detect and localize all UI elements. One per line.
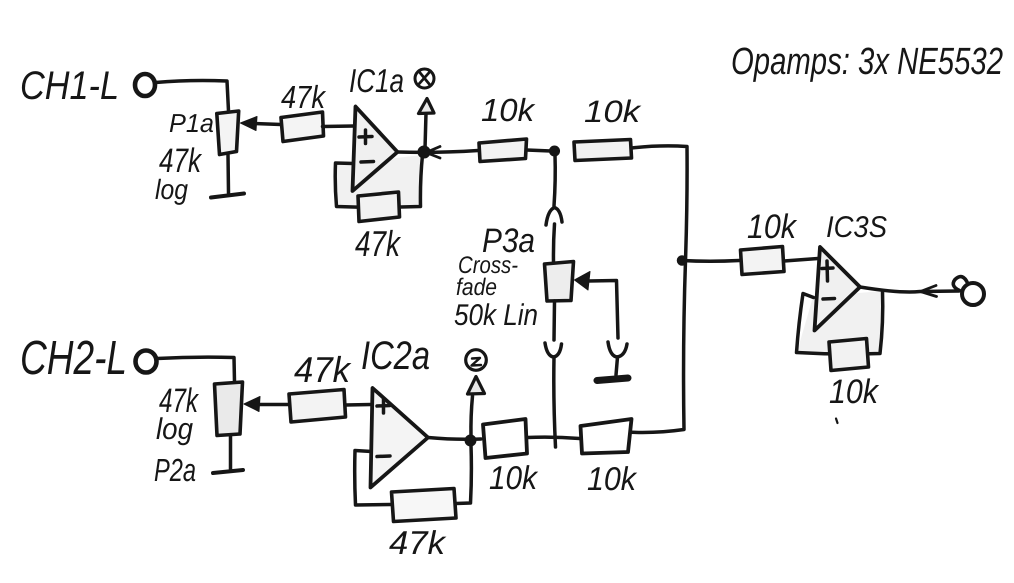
terminal CH1-L input (135, 74, 155, 96)
potentiometer P3a wiper arrow (575, 272, 591, 291)
resistor 10k IC3 feedback (829, 339, 869, 371)
svg-text:47k: 47k (355, 223, 402, 264)
svg-text:CH2-L: CH2-L (20, 332, 127, 385)
svg-text:10k: 10k (489, 459, 538, 496)
wire bus junction to 10k IC3 (682, 259, 739, 263)
wire 10k to IC3 (784, 259, 818, 262)
wire IC1a output (398, 151, 479, 153)
op-amp IC1a minus (361, 160, 374, 164)
resistor 10k bottom-right (581, 419, 632, 454)
wire IC2a output (428, 438, 481, 440)
resistor 47k CH2 input (289, 390, 346, 423)
svg-text:IC3S: IC3S (826, 211, 887, 244)
wire IC3 feedback loop (797, 291, 883, 354)
potentiometer P2a body (215, 382, 243, 436)
svg-text:P1a: P1a (169, 108, 214, 138)
op-amp IC3 minus (823, 297, 835, 301)
wire 47k to IC1a (323, 124, 355, 128)
resistor 10k top-left (479, 139, 527, 162)
wire P3a wiper (588, 281, 618, 339)
op-amp IC1a feedback shading (335, 155, 422, 207)
wire IC1a feedback loop (335, 155, 422, 207)
wire CH2 input to P2a (157, 357, 235, 382)
wire wiper to ground (616, 357, 618, 375)
svg-text:10k: 10k (587, 460, 637, 497)
arrowhead test point X (419, 99, 435, 114)
stray pen tick (836, 419, 838, 424)
op-amp IC1a plus (359, 130, 372, 144)
svg-text:IC1a: IC1a (349, 62, 404, 99)
svg-text:47k: 47k (294, 349, 352, 390)
arrowhead test point 2 (468, 377, 485, 395)
wire P2a bottom (229, 436, 233, 470)
svg-text:10k: 10k (584, 94, 642, 129)
resistor 47k IC2a feedback (392, 489, 457, 522)
svg-text:47k: 47k (389, 524, 447, 561)
op-amp IC1a (353, 107, 398, 192)
svg-text:10k: 10k (829, 373, 880, 411)
svg-text:47k: 47k (281, 79, 327, 115)
connector hook P3a wiper (608, 342, 627, 357)
test point 2 circle (466, 350, 487, 371)
node right bus junction (678, 256, 687, 265)
connector hook P3a bottom (545, 343, 562, 357)
svg-text:fade: fade (456, 274, 497, 301)
potentiometer P2a wiper arrow (258, 403, 288, 407)
op-amp IC3 plus (822, 261, 833, 281)
arrowhead on output wire (921, 286, 937, 297)
terminal P1a bottom tick (211, 194, 244, 198)
wire arrow to P3a (553, 224, 554, 262)
wire to test point 2 (471, 396, 473, 437)
wire between bottom 10ks (527, 437, 580, 438)
ground P3a wiper (597, 378, 628, 381)
node top junction (550, 146, 560, 156)
resistor 10k top-right (574, 140, 632, 161)
op-amp IC3 (815, 247, 861, 331)
wire P3a bottom (552, 301, 556, 340)
op-amp IC3 feedback shading (797, 291, 882, 353)
wire 10k to junction (527, 150, 552, 151)
arrowhead at IC1a output node (426, 147, 440, 159)
svg-text:10k: 10k (747, 208, 798, 246)
wire top junction down to P3a (554, 155, 555, 206)
svg-text:Opamps: 3x NE5532: Opamps: 3x NE5532 (731, 41, 1003, 83)
node IC2a output (465, 435, 475, 445)
svg-text:CH1-L: CH1-L (20, 64, 119, 108)
wire IC2a feedback loop (355, 445, 472, 505)
resistor 47k IC1a feedback (358, 192, 400, 222)
svg-text:10k: 10k (481, 92, 536, 128)
potentiometer P3a body (545, 262, 574, 302)
terminal P2a bottom tick (213, 470, 243, 473)
test point X circle (415, 69, 434, 88)
svg-text:50k Lin: 50k Lin (454, 299, 538, 332)
wire IC3 output (860, 287, 959, 292)
wire P1a bottom (226, 155, 230, 193)
connector arrow up P3a top (546, 208, 562, 226)
svg-text:IC2a: IC2a (361, 334, 430, 378)
wire right bus (627, 146, 688, 433)
wire P3a bottom to bus (554, 357, 556, 447)
terminal CH2-L input (136, 351, 157, 373)
op-amp IC2a minus (377, 454, 390, 458)
wire CH1 input to P1a (156, 81, 229, 112)
resistor 10k IC3 input (741, 247, 785, 275)
potentiometer P1a body (217, 111, 239, 155)
svg-text:log: log (155, 174, 188, 205)
resistor 10k bottom-left (483, 419, 527, 458)
op-amp IC2a (371, 388, 429, 488)
wire 47k to IC2a (346, 403, 372, 407)
svg-text:log: log (156, 413, 193, 446)
potentiometer P1a wiper arrow (254, 124, 281, 125)
node IC1a output (418, 146, 430, 158)
resistor 47k CH1 input (281, 112, 324, 142)
svg-text:P2a: P2a (154, 452, 196, 488)
wire to test point X (425, 113, 426, 149)
terminal output (962, 283, 984, 305)
op-amp IC2a plus (377, 399, 390, 413)
